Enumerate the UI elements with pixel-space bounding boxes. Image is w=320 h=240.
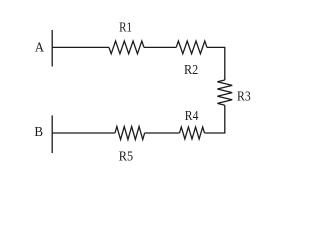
- wire A to R1: [52, 46, 109, 48]
- svg-text:R5: R5: [119, 150, 133, 165]
- wire B to R5: [52, 132, 115, 134]
- svg-text:B: B: [34, 125, 43, 140]
- svg-text:R3: R3: [237, 90, 251, 105]
- wire R3 to bottom-right corner to R4: [205, 105, 225, 133]
- svg-text:R1: R1: [119, 21, 132, 36]
- wire R5 to R4: [145, 132, 180, 134]
- terminal bar B: [51, 115, 53, 153]
- resistor R2: [176, 41, 207, 54]
- svg-text:R2: R2: [184, 63, 198, 78]
- terminal bar A: [51, 30, 53, 67]
- svg-text:R4: R4: [185, 109, 199, 124]
- resistor R4: [180, 127, 205, 139]
- resistor R1: [109, 41, 144, 54]
- svg-text:A: A: [35, 40, 45, 55]
- wire R2 to top-right corner down to R3: [207, 47, 225, 80]
- resistor R5: [115, 127, 145, 140]
- resistor R3: [217, 80, 232, 105]
- wire R1 to R2: [144, 46, 176, 48]
